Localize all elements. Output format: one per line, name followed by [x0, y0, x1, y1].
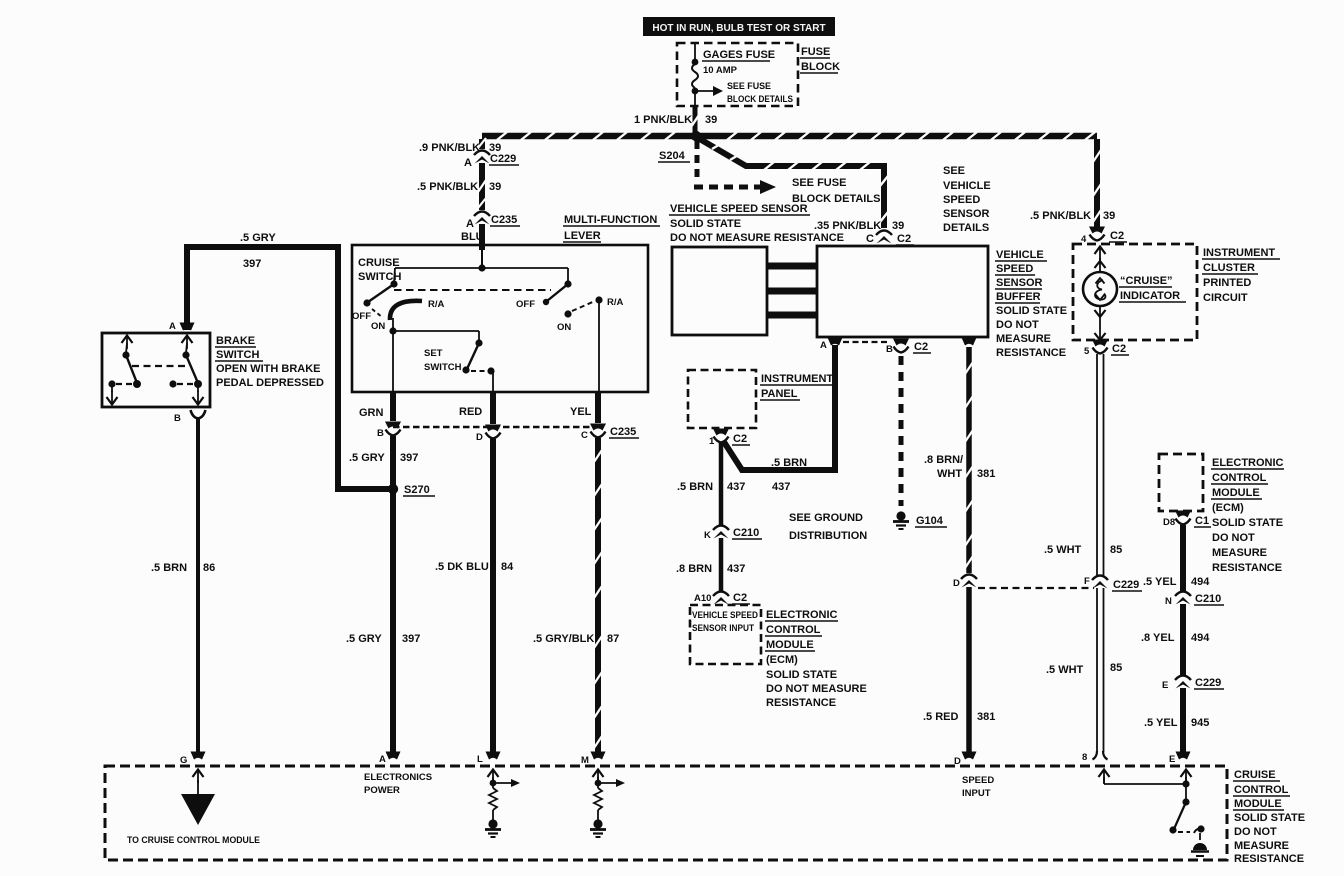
hatched wire .5 GRY/BLK 87 C to M: [533, 438, 619, 753]
svg-text:CONTROL: CONTROL: [1212, 472, 1267, 484]
svg-text:CONTROL: CONTROL: [766, 624, 821, 636]
label CRUISE SWITCH: [358, 257, 401, 283]
svg-text:437: 437: [727, 481, 745, 493]
svg-text:.35 PNK/BLK: .35 PNK/BLK: [814, 220, 881, 232]
wire .5 BRN 86 to G: [151, 417, 215, 752]
svg-text:SWITCH: SWITCH: [424, 362, 462, 373]
svg-text:TO CRUISE CONTROL MODULE: TO CRUISE CONTROL MODULE: [127, 835, 260, 846]
terminal B brake switch: [174, 410, 206, 424]
connector B: [377, 422, 401, 440]
wire .8 YEL 494: [1141, 604, 1210, 675]
svg-text:RESISTANCE: RESISTANCE: [1234, 853, 1304, 865]
wire .5 DK BLU 84 D to L: [435, 439, 514, 753]
page connector A triangle: [127, 770, 260, 847]
instrument panel dashed box: [688, 370, 836, 428]
wire ON contact down and to set switch: [389, 318, 479, 392]
svg-text:VEHICLE: VEHICLE: [996, 249, 1044, 261]
connector C C2 at buffer: [866, 231, 914, 246]
svg-text:INPUT: INPUT: [962, 788, 991, 799]
svg-text:C1: C1: [1195, 515, 1209, 527]
note SEE VEHICLE SPEED SENSOR DETAILS: [943, 165, 991, 234]
svg-text:84: 84: [501, 561, 514, 573]
label FUSE BLOCK: [800, 46, 840, 73]
svg-text:.5 WHT: .5 WHT: [1046, 664, 1084, 676]
svg-text:MODULE: MODULE: [766, 639, 814, 651]
svg-text:VEHICLE SPEED SENSOR: VEHICLE SPEED SENSOR: [670, 203, 808, 215]
arrow to see fuse block details: [695, 81, 793, 105]
svg-text:D: D: [476, 432, 483, 443]
terminal G: [180, 752, 206, 767]
svg-text:437: 437: [727, 563, 745, 575]
svg-text:39: 39: [1103, 210, 1115, 222]
svg-text:.5 BRN: .5 BRN: [677, 481, 713, 493]
svg-text:E: E: [1162, 680, 1168, 691]
svg-text:RED: RED: [459, 406, 482, 418]
connector 1 C2 under panel: [709, 429, 750, 448]
svg-text:10 AMP: 10 AMP: [703, 65, 738, 76]
dashed branch from S204 to fuse block details arrow: [694, 141, 880, 205]
wire .5 YEL 494: [1143, 525, 1210, 591]
svg-text:C: C: [866, 233, 874, 245]
svg-text:.5 GRY: .5 GRY: [346, 633, 382, 645]
gang dashed link: [394, 289, 551, 291]
svg-text:437: 437: [772, 481, 790, 493]
svg-text:ELECTRONICS: ELECTRONICS: [364, 772, 432, 783]
svg-text:“CRUISE”: “CRUISE”: [1120, 275, 1173, 287]
svg-text:ON: ON: [557, 322, 571, 333]
terminal D speed input: [954, 752, 994, 800]
svg-text:S204: S204: [659, 150, 686, 162]
svg-text:C2: C2: [1110, 230, 1124, 242]
svg-text:POWER: POWER: [364, 785, 400, 796]
wire .5 BRN 437 buffer A to panel: [724, 345, 835, 493]
label BRAKE SWITCH: [215, 335, 324, 389]
svg-text:MODULE: MODULE: [1234, 798, 1282, 810]
label CRUISE INDICATOR: [1119, 275, 1186, 302]
svg-text:C235: C235: [491, 214, 517, 226]
svg-text:C: C: [581, 430, 588, 441]
svg-text:SENSOR INPUT: SENSOR INPUT: [692, 623, 754, 634]
svg-text:A: A: [464, 157, 472, 169]
connector A C229: [464, 151, 519, 170]
connector B C2 under buffer: [886, 339, 931, 356]
svg-text:D: D: [953, 578, 960, 589]
svg-text:A10: A10: [694, 593, 711, 604]
svg-text:1: 1: [709, 436, 715, 447]
svg-text:DO NOT: DO NOT: [1234, 826, 1277, 838]
terminal A brake switch: [169, 321, 195, 332]
brake switch box: [102, 333, 210, 407]
hatched wire .5 PNK/BLK C229 to C235: [417, 163, 501, 210]
svg-text:945: 945: [1191, 717, 1209, 729]
svg-text:LEVER: LEVER: [564, 230, 601, 242]
svg-text:B: B: [886, 344, 893, 355]
fuse block dashed box: [677, 43, 798, 106]
svg-text:.5 RED: .5 RED: [923, 711, 959, 723]
svg-text:C2: C2: [914, 341, 928, 353]
svg-text:39: 39: [705, 114, 717, 126]
svg-text:MULTI-FUNCTION: MULTI-FUNCTION: [564, 214, 657, 226]
svg-text:DETAILS: DETAILS: [943, 222, 989, 234]
svg-text:.5 YEL: .5 YEL: [1143, 576, 1177, 588]
svg-text:DISTRIBUTION: DISTRIBUTION: [789, 530, 867, 542]
svg-text:N: N: [1165, 596, 1172, 607]
hatched wire .5 PNK/BLK 39 bus right drop: [1030, 139, 1115, 228]
svg-text:DO NOT: DO NOT: [996, 319, 1039, 331]
double wire .5 WHT 85 upper: [1044, 354, 1122, 576]
svg-text:GRN: GRN: [359, 407, 384, 419]
svg-text:CLUSTER: CLUSTER: [1203, 262, 1255, 274]
terminal A electronics power: [364, 752, 432, 797]
svg-text:381: 381: [977, 711, 995, 723]
svg-text:E: E: [1169, 754, 1175, 765]
terminal E cruise module: [1169, 752, 1191, 766]
svg-text:494: 494: [1191, 576, 1210, 588]
svg-text:39: 39: [892, 220, 904, 232]
wire .5 RED 381 to D speed input: [923, 587, 995, 753]
svg-text:397: 397: [243, 258, 261, 270]
svg-text:C229: C229: [1195, 677, 1221, 689]
svg-text:.5 BRN: .5 BRN: [771, 457, 807, 469]
svg-text:PRINTED: PRINTED: [1203, 277, 1251, 289]
main bus wire (hatched PNK/BLK feed): [482, 132, 1097, 140]
svg-text:SOLID STATE: SOLID STATE: [670, 218, 741, 230]
connector D: [476, 425, 501, 444]
cruise switch left pole: [352, 268, 445, 332]
wire .5 GRY 397 B to S270 to bottom A: [346, 436, 420, 753]
terminal M with load to ground: [581, 752, 625, 838]
svg-text:G: G: [180, 755, 187, 766]
dashed hatched ground wire B to G104: [899, 356, 904, 506]
set switch: [424, 339, 495, 392]
svg-text:MEASURE: MEASURE: [1234, 840, 1289, 852]
connector 5 C2: [1084, 340, 1129, 358]
splice S204: [658, 131, 701, 162]
svg-text:SWITCH: SWITCH: [216, 349, 259, 361]
wire GRN stub: [359, 392, 393, 421]
svg-text:.8 BRN: .8 BRN: [676, 563, 712, 575]
connector 4 C2: [1081, 227, 1127, 246]
label ELECTRONIC CONTROL MODULE right: [1211, 457, 1284, 574]
connector A10 C2: [694, 592, 750, 605]
wire .5 GRY 397 brake to S270: [187, 232, 390, 489]
svg-text:SEE FUSE: SEE FUSE: [792, 177, 846, 189]
svg-text:(ECM): (ECM): [766, 654, 798, 666]
svg-text:SENSOR: SENSOR: [943, 208, 990, 220]
svg-text:87: 87: [607, 633, 619, 645]
svg-text:RESISTANCE: RESISTANCE: [996, 347, 1066, 359]
svg-text:ELECTRONIC: ELECTRONIC: [766, 609, 838, 621]
svg-text:L: L: [477, 754, 483, 765]
svg-text:.8 BRN/: .8 BRN/: [924, 454, 963, 466]
cruise module internal switch to ground: [1099, 770, 1210, 857]
banner HOT IN RUN: [643, 17, 835, 36]
sensor-buffer link bars: [767, 266, 817, 315]
label VEHICLE SPEED SENSOR BUFFER: [995, 249, 1067, 359]
svg-text:C210: C210: [1195, 593, 1221, 605]
svg-text:494: 494: [1191, 632, 1210, 644]
terminal A buffer: [820, 338, 843, 352]
instrument cluster dashed box: [1073, 244, 1197, 340]
svg-text:.5 DK BLU: .5 DK BLU: [435, 561, 489, 573]
svg-text:.5 GRY: .5 GRY: [240, 232, 276, 244]
svg-text:FUSE: FUSE: [801, 46, 830, 58]
svg-text:BUFFER: BUFFER: [996, 291, 1041, 303]
svg-text:HOT IN RUN, BULB TEST OR START: HOT IN RUN, BULB TEST OR START: [652, 23, 825, 34]
brake switch gang dashed link: [132, 365, 186, 367]
svg-text:C235: C235: [610, 426, 636, 438]
svg-text:RESISTANCE: RESISTANCE: [766, 697, 836, 709]
svg-text:SPEED: SPEED: [996, 263, 1033, 275]
svg-text:S270: S270: [404, 484, 430, 496]
svg-text:381: 381: [977, 468, 995, 480]
dashed link A to B under buffer: [843, 341, 890, 343]
connector C C235: [581, 424, 639, 442]
cruise indicator lamp: [1083, 247, 1117, 341]
hatched wire .8 BRN/WHT 381: [924, 347, 995, 573]
multi-function lever box: [352, 245, 648, 392]
svg-text:.5 GRY: .5 GRY: [349, 452, 385, 464]
svg-text:INSTRUMENT: INSTRUMENT: [761, 373, 833, 385]
svg-text:G104: G104: [916, 515, 944, 527]
hatched wire S204 diagonal to buffer C2: [698, 138, 904, 232]
svg-text:C229: C229: [490, 153, 516, 165]
connector A C235: [461, 212, 520, 244]
svg-text:SEE GROUND: SEE GROUND: [789, 512, 863, 524]
terminal 8: [1082, 751, 1108, 763]
wire .8 BRN 437 K to A10: [676, 538, 745, 592]
svg-text:YEL: YEL: [570, 406, 592, 418]
svg-text:SOLID STATE: SOLID STATE: [996, 305, 1067, 317]
svg-text:86: 86: [203, 562, 215, 574]
svg-text:OFF: OFF: [352, 311, 371, 322]
label INSTRUMENT CLUSTER PRINTED CIRCUIT: [1202, 247, 1280, 304]
note SEE GROUND DISTRIBUTION: [789, 512, 867, 542]
wire .5 BRN 437 panel to K: [677, 443, 745, 525]
svg-text:MEASURE: MEASURE: [1212, 547, 1267, 559]
vehicle speed sensor box: [672, 247, 767, 335]
svg-text:85: 85: [1110, 544, 1122, 556]
svg-text:PEDAL DEPRESSED: PEDAL DEPRESSED: [216, 377, 324, 389]
svg-text:1 PNK/BLK: 1 PNK/BLK: [634, 114, 692, 126]
svg-text:SPEED: SPEED: [943, 194, 980, 206]
svg-text:C210: C210: [733, 527, 759, 539]
svg-text:BLOCK DETAILS: BLOCK DETAILS: [727, 94, 793, 105]
wire YEL stub: [570, 392, 598, 423]
wire 1 PNK/BLK 39 fuse to bus: [634, 106, 717, 134]
svg-text:A: A: [466, 218, 474, 230]
svg-text:D8: D8: [1163, 517, 1175, 528]
splice S270: [388, 484, 435, 496]
svg-text:DO NOT MEASURE RESISTANCE: DO NOT MEASURE RESISTANCE: [670, 232, 844, 244]
svg-text:397: 397: [402, 633, 420, 645]
svg-text:39: 39: [489, 181, 501, 193]
svg-text:INDICATOR: INDICATOR: [1120, 290, 1180, 302]
svg-text:.5 YEL: .5 YEL: [1144, 717, 1178, 729]
svg-text:(ECM): (ECM): [1212, 502, 1244, 514]
connector F C229: [1084, 576, 1142, 592]
svg-text:VEHICLE SPEED: VEHICLE SPEED: [692, 610, 758, 621]
svg-text:B: B: [377, 428, 384, 439]
svg-text:8: 8: [1082, 752, 1087, 763]
brake switch right pole: [169, 336, 203, 405]
svg-text:.5 PNK/BLK: .5 PNK/BLK: [1030, 210, 1091, 222]
svg-text:SOLID STATE: SOLID STATE: [1234, 812, 1305, 824]
svg-text:GAGES FUSE: GAGES FUSE: [703, 49, 775, 61]
svg-text:A: A: [820, 340, 827, 351]
svg-text:.5 WHT: .5 WHT: [1044, 544, 1082, 556]
cruise switch feed wire + node: [395, 250, 568, 272]
svg-text:.9 PNK/BLK: .9 PNK/BLK: [419, 142, 480, 154]
svg-text:PANEL: PANEL: [761, 388, 798, 400]
cruise switch right pole: [516, 268, 624, 392]
connector K C210: [704, 526, 762, 542]
ECM dashed box right: [1159, 454, 1203, 511]
dashed link D to F: [978, 587, 1094, 589]
label ELECTRONIC CONTROL MODULE ECM: [765, 609, 867, 709]
svg-text:R/A: R/A: [607, 297, 624, 308]
svg-text:A: A: [169, 321, 176, 332]
svg-text:VEHICLE: VEHICLE: [943, 180, 991, 192]
svg-text:D: D: [954, 756, 961, 767]
svg-text:SPEED: SPEED: [962, 775, 994, 786]
svg-text:5: 5: [1084, 346, 1090, 357]
svg-text:SENSOR: SENSOR: [996, 277, 1043, 289]
svg-text:B: B: [174, 413, 181, 424]
svg-text:OPEN WITH BRAKE: OPEN WITH BRAKE: [216, 363, 321, 375]
connector N C210: [1165, 592, 1224, 608]
svg-text:C2: C2: [733, 433, 747, 445]
svg-text:R/A: R/A: [428, 299, 445, 310]
svg-text:SEE FUSE: SEE FUSE: [727, 81, 771, 92]
label MULTI-FUNCTION LEVER: [563, 214, 660, 242]
hatched wire bus left drop to C229: [419, 138, 501, 154]
svg-text:WHT: WHT: [937, 468, 962, 480]
svg-text:C2: C2: [897, 233, 911, 245]
svg-text:C2: C2: [1112, 343, 1126, 355]
terminal right buffer (brn/wht): [962, 338, 977, 346]
svg-text:OFF: OFF: [516, 299, 535, 310]
svg-text:A: A: [379, 754, 386, 765]
connector D8 C1: [1163, 511, 1211, 529]
svg-text:F: F: [1084, 576, 1090, 587]
svg-text:DO NOT MEASURE: DO NOT MEASURE: [766, 683, 867, 695]
svg-text:85: 85: [1110, 662, 1122, 674]
svg-text:CRUISE: CRUISE: [358, 257, 400, 269]
svg-text:.8 YEL: .8 YEL: [1141, 632, 1175, 644]
connector row dashed line C235: [393, 426, 598, 428]
svg-text:RESISTANCE: RESISTANCE: [1212, 562, 1282, 574]
svg-text:M: M: [581, 755, 589, 766]
svg-text:SEE: SEE: [943, 165, 965, 177]
svg-text:BLOCK: BLOCK: [801, 61, 840, 73]
connector D inline: [953, 575, 977, 590]
double wire .5 WHT 85 lower: [1046, 588, 1122, 752]
connector E C229: [1162, 676, 1224, 692]
svg-text:.5 BRN: .5 BRN: [151, 562, 187, 574]
label CRUISE CONTROL MODULE: [1233, 769, 1305, 865]
svg-text:.5 GRY/BLK: .5 GRY/BLK: [533, 633, 594, 645]
svg-text:DO NOT: DO NOT: [1212, 532, 1255, 544]
svg-text:CONTROL: CONTROL: [1234, 784, 1289, 796]
svg-text:MEASURE: MEASURE: [996, 333, 1051, 345]
svg-text:MODULE: MODULE: [1212, 487, 1260, 499]
svg-text:CIRCUIT: CIRCUIT: [1203, 292, 1248, 304]
svg-text:SOLID STATE: SOLID STATE: [1212, 517, 1283, 529]
ECM vehicle speed sensor input dashed box: [690, 605, 761, 664]
svg-text:.5 PNK/BLK: .5 PNK/BLK: [417, 181, 478, 193]
svg-text:ELECTRONIC: ELECTRONIC: [1212, 457, 1284, 469]
svg-text:C229: C229: [1113, 579, 1139, 591]
wire BLU into lever box: [479, 224, 485, 250]
ground G104: [893, 511, 947, 529]
fuse F gages wire + element: [692, 43, 699, 106]
svg-text:BRAKE: BRAKE: [216, 335, 255, 347]
note VEHICLE SPEED SENSOR: [669, 203, 844, 244]
svg-text:ON: ON: [371, 321, 385, 332]
svg-text:SOLID STATE: SOLID STATE: [766, 669, 837, 681]
brake switch left pole: [107, 336, 142, 405]
vehicle speed sensor buffer box: [817, 246, 988, 337]
wire .5 YEL 945: [1144, 688, 1209, 753]
svg-text:C2: C2: [733, 592, 747, 604]
svg-text:INSTRUMENT: INSTRUMENT: [1203, 247, 1275, 259]
cruise control module dashed box: [105, 766, 1227, 860]
svg-text:397: 397: [400, 452, 418, 464]
wire RED stub: [459, 392, 493, 424]
terminal L with load to ground: [477, 752, 520, 838]
svg-text:K: K: [704, 530, 711, 541]
svg-text:A: A: [195, 803, 202, 814]
svg-text:CRUISE: CRUISE: [1234, 769, 1276, 781]
label GAGES FUSE 10 AMP: [702, 49, 775, 76]
svg-text:SET: SET: [424, 348, 443, 359]
